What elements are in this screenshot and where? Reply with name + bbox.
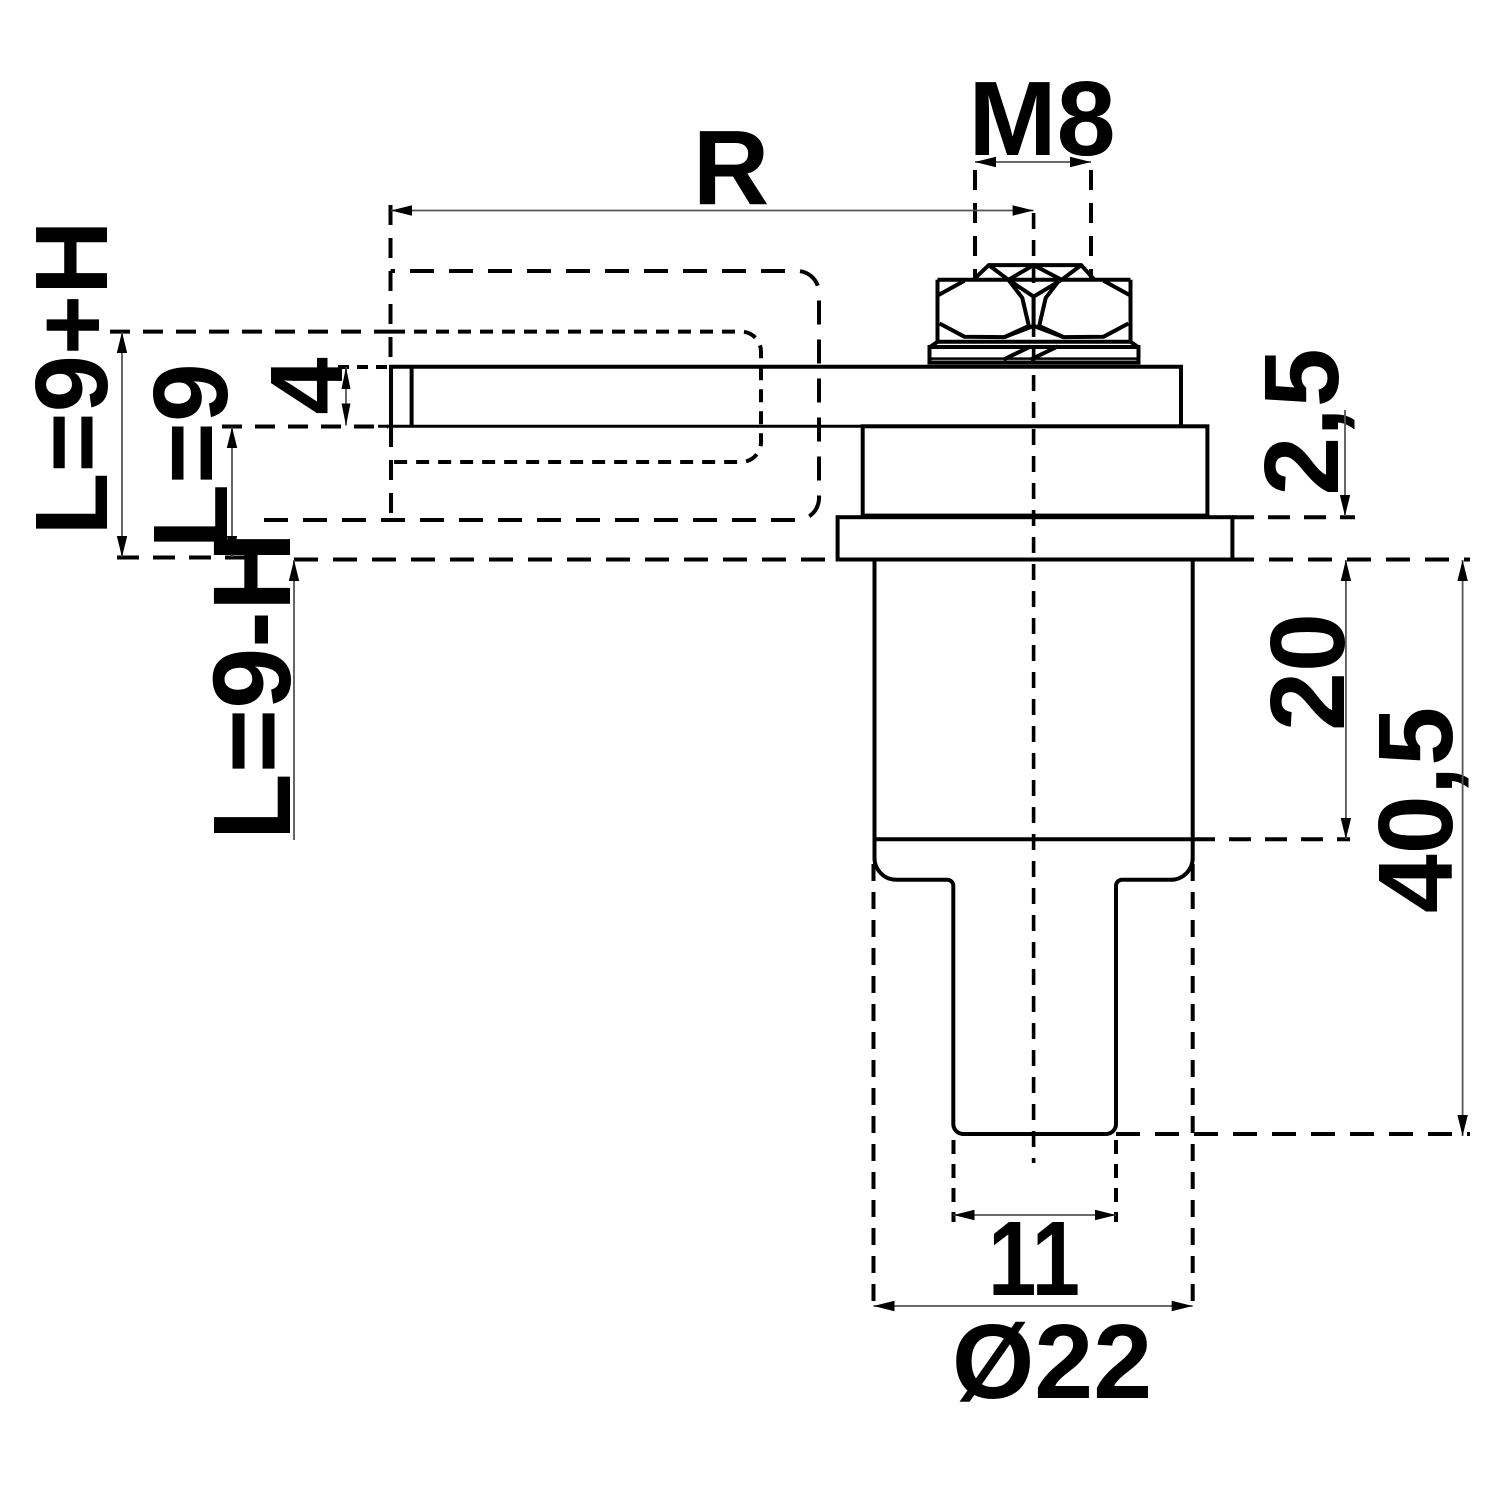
dimension 4 line [345,367,347,426]
dimension diameter22 line [874,1305,1193,1307]
nut body sides [938,280,1131,342]
lock body step [863,426,1208,515]
wire: extension line y=427 left of arm [222,425,388,429]
dashed cam envelope upper (outer rounded rect) [264,271,819,520]
dimension 20 line [1345,560,1347,839]
nut chamfer center facet lambda [1008,265,1061,280]
wire: left vertical dashed at arm end / R extension [389,205,393,366]
dimension 2,5 line [1344,410,1346,516]
wire: M8 extension right [1089,170,1093,278]
svg-text:L=9+H: L=9+H [14,221,129,536]
dimension 40,5 line [1462,560,1464,1136]
svg-text:20: 20 [1249,613,1367,731]
svg-text:11: 11 [988,1200,1080,1318]
nut chamfer inner diagonals [989,265,1081,280]
wire: diameter22 extension left [872,864,876,1312]
wire: extension dashes y=367 for 4-dim [338,365,388,369]
dimension L=9+H line [121,332,123,557]
washer split slashes [1004,346,1058,359]
cylinder internal step line [875,837,1193,841]
wire: extension y=1134 right of stem [1116,1132,1470,1136]
cam arm end face line [410,367,414,427]
wire: extension y=517 right of flange [1232,515,1355,519]
wire: extension line y=557 left [117,556,245,560]
svg-text:2,5: 2,5 [1243,348,1361,495]
dimension L=9-H leader [293,560,295,840]
cam lever arm (flat bar) [391,367,1181,427]
hex flange nut M8 [930,265,1139,362]
dimension M8 line [975,161,1091,163]
wire: extension y=839 right of cylinder [1193,837,1350,841]
nut top chamfer trapezoid [973,265,1094,280]
nut body top edge [938,278,1131,282]
center line axis [1032,213,1036,1163]
nut left hex face [938,280,1029,337]
dimension L=9 line [231,427,233,557]
dashed cam position left (inner rounded rect) [110,330,392,334]
dimension R line [391,210,1034,212]
svg-text:40,5: 40,5 [1357,707,1475,913]
wire: 11 extension right [1114,1140,1118,1222]
cam arm bottom edge [378,425,866,428]
nut flange wedge [930,342,1138,347]
nut right hex face [1039,280,1130,337]
wire: long mounting surface dashed y=559.5 [294,558,1470,562]
wire: M8 extension left [973,170,977,278]
housing cylinder with shoulder and stem [874,560,1192,1135]
mounting flange [838,517,1233,559]
wire: diameter22 extension right [1191,864,1195,1312]
nut washer [930,347,1139,363]
nut body bottom edge [938,340,1131,344]
dimension 11 line [954,1214,1117,1216]
svg-text:Ø22: Ø22 [952,1303,1152,1421]
nut center corner edge [1005,280,1064,337]
svg-text:R: R [693,109,770,227]
wire: 11 extension left [952,1140,956,1222]
